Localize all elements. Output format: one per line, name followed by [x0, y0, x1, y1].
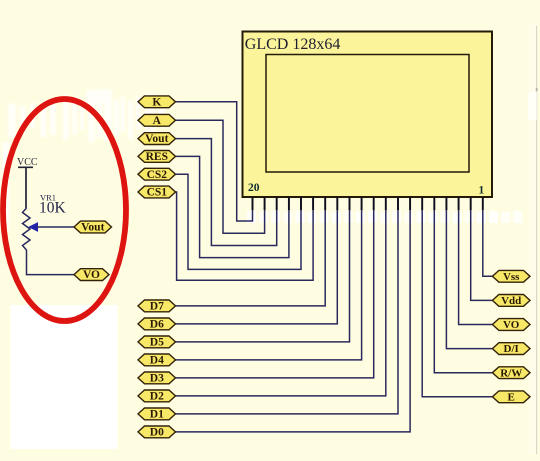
- net label tag R/W: [492, 367, 530, 380]
- net label tag D7: [138, 300, 176, 313]
- svg-text:D1: D1: [150, 409, 164, 421]
- potentiometer VR1 10K zigzag body: [23, 208, 31, 250]
- wire net VO: pin 3 to tag VO: [459, 197, 493, 325]
- wire net Vdd: pin 2 to tag Vdd: [471, 197, 493, 300]
- wire net CS2: tag CS2 to pin 16: [176, 174, 302, 269]
- svg-text:Vss: Vss: [503, 271, 520, 283]
- svg-text:D/I: D/I: [504, 343, 519, 355]
- svg-text:1: 1: [479, 185, 485, 197]
- svg-text:Vout: Vout: [81, 222, 104, 234]
- net label tag A: [138, 114, 176, 127]
- power symbol VCC: [17, 157, 38, 208]
- wire net K: tag K to pin 20: [176, 102, 253, 221]
- wire net D3: tag D3 to pin 10: [176, 197, 374, 378]
- wire net Vss: pin 1 to tag Vss: [483, 197, 493, 276]
- svg-text:GLCD 128x64: GLCD 128x64: [245, 36, 341, 53]
- svg-text:CS2: CS2: [147, 169, 168, 181]
- net label tag Vout: [138, 133, 176, 146]
- svg-text:VO: VO: [83, 269, 100, 281]
- net label tag D1: [138, 408, 176, 421]
- wire net R/W: pin 5 to tag R/W: [434, 197, 492, 373]
- svg-text:E: E: [508, 391, 515, 403]
- wire net E: pin 6 to tag E: [422, 197, 492, 397]
- wire net D1: tag D1 to pin 8: [176, 197, 399, 414]
- faint white artifact band upper-left: [2, 89, 165, 230]
- svg-text:D6: D6: [150, 319, 164, 331]
- svg-text:R/W: R/W: [500, 367, 522, 379]
- wire pot bottom to VO tag: [27, 250, 75, 275]
- svg-text:Vout: Vout: [145, 133, 168, 145]
- net label tag CS2: [138, 168, 176, 181]
- net label tag CS1: [138, 186, 176, 199]
- wire net CS1: tag CS1 to pin 15: [176, 192, 314, 280]
- white erased rectangle bottom-left: [11, 305, 118, 449]
- net label tag D6: [138, 318, 176, 331]
- LCD screen area (inner rectangle): [266, 55, 469, 173]
- wire net D2: tag D2 to pin 9: [176, 197, 386, 396]
- wire net RES: tag RES to pin 17: [176, 156, 289, 257]
- svg-text:D5: D5: [150, 337, 164, 349]
- faint right edge strip: [529, 24, 537, 454]
- net label tag Vdd: [492, 295, 530, 308]
- pin stubs pins 20..1 of LCD: [253, 197, 483, 210]
- wire net D6: tag D6 to pin 13: [176, 197, 338, 324]
- net label tag RES: [138, 151, 176, 164]
- svg-text:D4: D4: [150, 355, 164, 367]
- wire net D4: tag D4 to pin 11: [176, 197, 362, 360]
- svg-text:RES: RES: [146, 151, 168, 163]
- net label tag VO: [492, 319, 530, 332]
- net label tag D0: [138, 426, 176, 439]
- LCD module: GLCD 128x64 outer body: [243, 32, 493, 198]
- svg-text:A: A: [153, 115, 162, 127]
- wire net D5: tag D5 to pin 12: [176, 197, 350, 342]
- faint white band under GLCD pins: [247, 211, 522, 223]
- wire net Vout: tag Vout to pin 18: [176, 139, 277, 246]
- wire net A: tag A to pin 19: [176, 120, 265, 233]
- net label tag D3: [138, 372, 176, 385]
- wire net D0: tag D0 to pin 7: [176, 197, 411, 432]
- net label tag VO of pot: [74, 269, 109, 282]
- net label tag K: [138, 96, 176, 109]
- wire net D7: tag D7 to pin 14: [176, 197, 326, 306]
- svg-text:VCC: VCC: [17, 157, 38, 168]
- wiper arrow of VR1: [29, 223, 37, 231]
- svg-text:D0: D0: [150, 427, 164, 439]
- net label tag D2: [138, 390, 176, 403]
- svg-text:VO: VO: [503, 319, 520, 331]
- svg-text:D7: D7: [150, 301, 164, 313]
- svg-text:K: K: [152, 96, 161, 108]
- net label tag D4: [138, 354, 176, 367]
- net label tag D/I: [492, 343, 530, 356]
- net label tag Vout of pot: [74, 221, 112, 234]
- wire net D/I: pin 4 to tag D/I: [446, 197, 492, 349]
- svg-text:D2: D2: [150, 391, 164, 403]
- wire wiper to Vout tag: [37, 226, 75, 228]
- svg-text:CS1: CS1: [147, 187, 168, 199]
- net label tag Vss: [492, 270, 530, 283]
- svg-text:Vdd: Vdd: [501, 295, 521, 307]
- svg-text:10K: 10K: [39, 200, 67, 217]
- svg-text:20: 20: [248, 182, 260, 194]
- red highlight ellipse annotation: [3, 99, 126, 321]
- svg-text:D3: D3: [150, 373, 164, 385]
- net label tag D5: [138, 336, 176, 349]
- net label tag E: [492, 391, 530, 404]
